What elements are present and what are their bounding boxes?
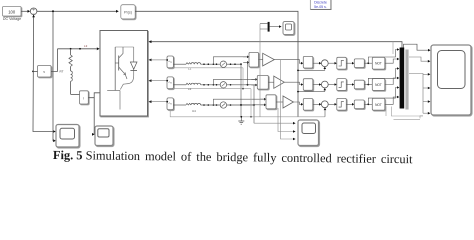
gain G3 [276,96,293,108]
wire [313,62,322,65]
Scope 1 [56,125,79,148]
small mux [260,22,282,32]
NOT block row3 [372,98,385,110]
svg-text:L2: L2 [188,87,192,91]
sum circle row3 [321,101,328,117]
signal verticals from measurements [254,24,296,141]
DC+ wire [58,44,100,50]
wire [37,10,119,13]
svg-text:5e-05 s.: 5e-05 s. [314,5,327,9]
svg-text:100: 100 [8,9,16,14]
svg-text:U4: U4 [192,109,196,113]
wire [328,103,337,106]
PI controller U1 [121,5,135,19]
phase A upper tap to Vab [213,56,249,65]
ground [238,116,244,124]
wire [385,77,400,85]
phase B branch [173,82,257,91]
wire to bridge minus [88,93,99,98]
universal bridge U2 [100,31,148,117]
wire [328,83,337,86]
load branch RT (R + L series) [60,49,73,95]
junction + bypass row3 [364,86,399,105]
phase rows: wires from bridge [148,59,167,62]
sample block row2 [303,79,313,91]
neutral chain rails [170,68,325,118]
NOT block row1 [372,57,385,69]
wire [346,83,354,86]
current measurement block [71,91,89,104]
wire [385,58,400,64]
powergui Discrete label [310,0,331,10]
relay (step) block row1 [337,57,347,69]
junction + bypass row2 [364,67,399,85]
wire [328,62,337,65]
wire to block [293,102,303,106]
junction + bypass row1 [364,48,399,64]
AC source block Ua [166,56,173,68]
svg-text:RT: RT [60,70,64,74]
wire [346,62,354,65]
AC source block Ub [166,77,173,89]
big scope [431,45,471,115]
sum circle row2 [297,81,328,92]
DC Voltage source block [3,7,22,22]
wire v-block branch to scope1 input2 [52,10,56,142]
svg-text:NOT: NOT [375,103,382,107]
phase A drop to Vca lower input [240,64,266,117]
mux M1 (6 pulses) [400,48,409,110]
wire [313,83,322,86]
gain G1 [259,53,275,66]
big scope feed wires [409,57,430,118]
wire [21,10,30,13]
scope3 (bottom middle) [298,120,319,146]
svg-text:DC Voltage: DC Voltage [3,17,21,21]
feedback wire to sum and scope1 [32,15,56,133]
control row 2: Vbc measurement [251,75,268,89]
svg-text:PI(s): PI(s) [124,10,133,14]
voltage measurement block [32,49,57,77]
phase C branch [173,102,255,113]
wire [313,103,322,106]
control row 3: Vca measurement [260,95,276,109]
phase C rise to Vbc lower input / drop to scope [253,85,255,123]
svg-text:NOT: NOT [375,62,382,66]
svg-text:NOT: NOT [375,83,382,87]
convert block row2 [354,80,364,89]
phase B upper tap to Vbc [213,78,257,85]
sum circle row1 [297,60,328,72]
sample block row3 [303,99,313,111]
gate wire from mux to bridge g [148,40,402,47]
wire stub near mux top [392,42,394,54]
relay (step) block row2 [337,79,347,91]
wire [346,103,354,106]
wire [385,96,400,105]
convert block row3 [354,100,364,109]
caption [53,148,413,167]
relay (step) block row3 [337,98,347,110]
phase C upper tap to Vca [213,98,266,105]
svg-text:L1: L1 [188,67,192,71]
control row 1: Vab measurement [243,52,258,67]
wire outline below mux [386,106,423,119]
mux output to scope [404,44,431,51]
Scope 2 [95,126,113,146]
AC source block Uc [166,98,173,110]
gain G2 [268,76,284,88]
wire to block [274,60,303,65]
svg-text:L3: L3 [84,44,88,48]
wire alpha [135,11,298,117]
phase A branch: RL + current measure [173,61,242,71]
phase B rise to Vab lower input [247,61,249,85]
wire to Scope2 [92,98,95,136]
wire to block [284,82,303,86]
convert block row1 [354,59,364,68]
small scope [283,22,294,35]
NOT block row2 [372,79,385,91]
sum junction S1 [30,8,37,15]
sample block row1 [303,56,313,68]
